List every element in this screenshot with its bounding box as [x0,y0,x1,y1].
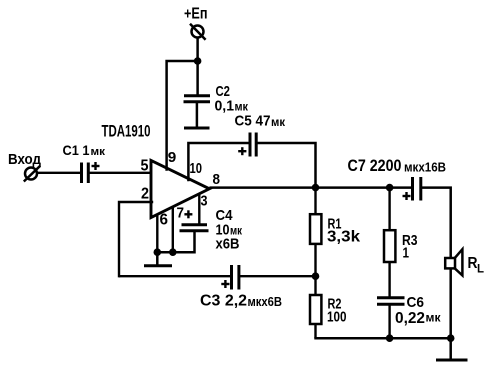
connector Вход [24,166,40,182]
svg-text:мкх16В: мкх16В [404,159,446,174]
svg-text:5: 5 [141,158,149,175]
capacitor C4 [180,225,209,231]
wire C4 to ground segment [156,231,194,252]
label R3 1 [402,232,418,262]
wire pin 6 to ground [156,215,158,254]
node feedback [312,272,320,280]
wire C5 to output node [257,143,315,188]
svg-text:мкх6В: мкх6В [248,295,283,309]
terminal +Eп [190,24,206,40]
svg-text:С1 1: С1 1 [63,142,90,158]
resistor R1 [310,214,321,244]
node output R3 [386,184,394,192]
resistor R3 [384,230,395,262]
svg-text:8: 8 [213,171,221,188]
wire output pin 8 [209,186,411,189]
wire C7 to speaker [422,188,451,259]
wire C6 to ground bus [388,306,390,339]
wire feedback node to R2 [314,276,316,295]
node supply junction [194,57,202,65]
svg-text:0,22: 0,22 [395,310,425,327]
svg-text:9: 9 [168,149,177,166]
label RL [468,255,485,276]
wire C1 to pin 5 [90,172,153,174]
svg-text:С5 47: С5 47 [235,113,271,130]
node pin 6 ground [154,248,162,256]
wire R1 to feedback node [314,244,316,276]
wire R3 to C6 [388,262,390,297]
svg-text:С7 2200: С7 2200 [348,157,402,175]
capacitor C1 [82,163,89,184]
node C6 ground [386,334,394,342]
svg-text:мк: мк [271,117,285,129]
label C5 47мк [235,113,286,130]
wire output to R1 [314,188,316,215]
label C4 10мк х6В [216,207,243,253]
svg-text:0,1: 0,1 [215,98,235,115]
label R2 100 [327,296,347,326]
wire speaker to ground bus [449,267,452,338]
node pin 7 ground [169,248,177,256]
polarity + C1 [92,162,100,170]
svg-text:х6В: х6В [216,236,240,253]
polarity + C3 [221,280,229,288]
svg-text:Вход: Вход [8,151,41,168]
node speaker ground [447,334,455,342]
label C3 2,2мкх6В [200,292,282,309]
capacitor C7 [413,177,421,201]
polarity + C4 [184,210,192,218]
svg-text:мк: мк [91,146,106,158]
wire feedback bus left [119,275,230,277]
node output C5 [312,184,320,192]
label C6 0,22мк [395,294,441,327]
capacitor C3 [232,265,239,290]
wire input to C1 [37,172,81,174]
svg-text:7: 7 [177,205,185,222]
svg-text:+Eп: +Eп [184,6,208,23]
svg-text:3: 3 [201,193,208,210]
svg-text:L: L [477,262,484,276]
svg-text:мк: мк [426,313,441,325]
label R1 3,3k [327,216,360,246]
wire supply junction to pin 9 [167,61,198,170]
wire pin 3 to C4 [198,194,200,226]
wire output to R3 [388,188,390,231]
svg-text:2: 2 [141,186,149,203]
svg-text:TDA1910: TDA1910 [102,122,151,141]
capacitor C5 [250,133,256,157]
capacitor C6 [377,298,405,304]
wire R2 to ground bus [314,324,316,338]
op-amp U1 TDA1910 [151,161,209,218]
ground (C2) [184,127,210,130]
wire pin 2 feedback [119,202,152,276]
svg-text:10: 10 [190,160,203,177]
label C7 2200 мкх16В [348,157,447,175]
label C1 1мк [63,142,106,158]
svg-text:6: 6 [160,212,169,229]
ground (output side) [436,338,468,360]
wire ground bus [314,337,450,340]
label C2 0,1мк [215,83,249,115]
wire pin 7 to ground [172,207,174,253]
wire pin 10 to C5 [188,143,248,180]
polarity + C5 [238,147,246,155]
svg-text:С6: С6 [407,294,425,311]
polarity + C7 [403,192,411,200]
ground (input side) [144,252,172,266]
svg-text:С3 2,2: С3 2,2 [200,292,247,309]
svg-text:1: 1 [403,245,410,262]
svg-text:100: 100 [327,309,347,326]
wire feedback bus right [240,275,316,277]
capacitor C2 [184,96,211,127]
resistor R2 [310,295,321,324]
svg-text:3,3k: 3,3k [327,229,360,246]
speaker RL [445,249,462,275]
wire +Eп to C2 [196,38,199,96]
